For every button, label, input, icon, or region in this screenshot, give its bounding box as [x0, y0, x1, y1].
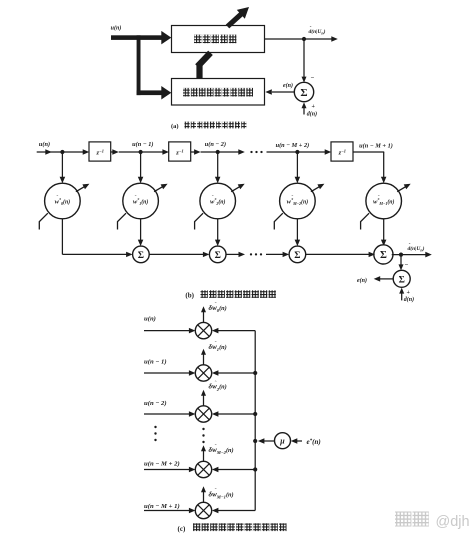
node: tap u(n-1) — [139, 150, 143, 154]
wire: output arrow up row 2 — [203, 395, 205, 406]
node: output tap dot — [302, 37, 306, 41]
wire: thick branch down to weight-control box — [137, 35, 141, 95]
svg-text:u(n − M + 1): u(n − M + 1) — [359, 143, 393, 150]
wire: summer1 to summer2 — [149, 253, 203, 255]
wire: summer4 output d-hat — [392, 254, 426, 256]
cross multiplier circle row 2 — [195, 406, 211, 422]
arrow: adjustability arrow on multiplier 3 — [311, 186, 320, 192]
svg-text:(c): (c) — [178, 525, 186, 533]
arrow: adjustability arrow on multiplier 0 — [76, 186, 85, 192]
wire: down to error summer — [400, 255, 402, 265]
svg-text:d(n): d(n) — [404, 296, 414, 303]
wire: filter output line — [265, 38, 332, 40]
summer 4 circle — [374, 245, 393, 264]
multiplier circle w0 — [45, 183, 81, 219]
wire out of delay 1 — [111, 151, 114, 153]
pigtail tail on multiplier 3 — [274, 213, 283, 229]
label: weight-control-algorithm CJK text — [183, 88, 190, 97]
svg-text:ˆ: ˆ — [378, 195, 380, 201]
wire: input into multiplier row 3 — [144, 469, 190, 471]
delay block z^-1 #1 — [89, 142, 111, 161]
svg-text:−: − — [405, 262, 409, 269]
svg-text:ˆ: ˆ — [215, 380, 217, 386]
arrow: adjustability arrow on multiplier 2 — [231, 186, 240, 192]
wire: vertical bus from mu — [254, 331, 256, 511]
svg-text:d(n): d(n) — [307, 111, 317, 118]
wire: output arrow up row 1 — [203, 354, 205, 365]
svg-text:ˆ: ˆ — [215, 302, 217, 308]
svg-text:Σ: Σ — [294, 251, 300, 261]
svg-text:(b): (b) — [185, 291, 194, 299]
wire: mu output to bus — [264, 440, 275, 442]
ellipsis dots multiplier column — [202, 428, 204, 430]
svg-text:+: + — [407, 290, 411, 296]
svg-text:μ: μ — [279, 437, 285, 446]
wire: input into multiplier row 0 — [144, 330, 190, 332]
wire: bus feed into multiplier row 1 — [218, 372, 256, 374]
wire: input into multiplier row 1 — [144, 372, 190, 374]
svg-text:u(n): u(n) — [111, 25, 122, 32]
wire: bus feed into multiplier row 2 — [218, 413, 256, 415]
wire: into summer3 — [266, 253, 284, 255]
svg-text:e(n): e(n) — [357, 277, 367, 284]
svg-text:ˆ: ˆ — [215, 488, 217, 494]
wire: d(n) input from below — [303, 107, 305, 115]
pigtail tail on multiplier 1 — [118, 213, 127, 229]
ellipsis dots left column — [154, 426, 156, 428]
wire: input line to first tap — [37, 151, 63, 153]
ellipsis dots on tap line — [250, 151, 252, 153]
wire: e(n) output arrow to the left — [380, 278, 393, 280]
svg-text:Σ: Σ — [300, 87, 307, 99]
mu gain circle — [275, 433, 291, 449]
summer (a) circle — [294, 82, 313, 101]
arrow: adjustability arrow on multiplier 4 — [397, 186, 406, 192]
pigtail tail on multiplier 4 — [361, 213, 370, 229]
svg-text:Σ: Σ — [380, 250, 387, 261]
wire: error arrow from summer to control box — [272, 91, 294, 93]
wire: output arrow up row 4 — [203, 492, 205, 503]
wire: output arrow up row 0 — [203, 312, 205, 323]
wire to z-1 block 2 — [141, 151, 163, 153]
svg-text:ˆ: ˆ — [215, 444, 217, 450]
wire: thick input line u(n) to filter box — [111, 35, 163, 40]
node: output tap to error summer — [399, 253, 403, 257]
arrow: thick adjustable arrow out of filter box top — [228, 14, 242, 27]
wire: e*(n) into mu — [296, 440, 302, 442]
svg-text:u(n − 1): u(n − 1) — [132, 141, 153, 148]
wire: tap down to multiplier 3 — [296, 152, 298, 178]
wire: multiplier 3 output down into summer 3 — [296, 219, 298, 241]
svg-text:u(n − 2): u(n − 2) — [205, 141, 226, 148]
label: transversal-filter CJK text — [194, 35, 202, 44]
cross multiplier circle row 0 — [195, 322, 211, 338]
cross multiplier circle row 1 — [195, 365, 211, 381]
summer 1 circle — [133, 246, 150, 263]
multiplier circle wM−2 — [280, 183, 316, 219]
svg-text:+: + — [312, 104, 316, 110]
pigtail tail on multiplier 2 — [195, 213, 204, 229]
wire: d(n) input from bottom — [401, 293, 403, 301]
wire: multiplier 0 output down and right into summer 1 — [61, 219, 63, 255]
wire: multiplier 2 output down into summer 2 — [217, 219, 219, 241]
pigtail tail on multiplier 0 — [39, 213, 48, 229]
wire right of u(n-2) — [218, 151, 239, 153]
error summer circle (b) — [393, 270, 410, 287]
wire: bus feed into multiplier row 4 — [218, 510, 256, 512]
wire: bus feed into multiplier row 0 — [218, 330, 256, 332]
summer 3 circle — [289, 246, 306, 263]
delay block z^-1 #2 — [169, 142, 191, 161]
svg-text:Σ: Σ — [138, 251, 144, 261]
svg-text:u(n − 1): u(n − 1) — [144, 359, 167, 366]
multiplier circle w1 — [123, 183, 159, 219]
node: tap u(n) — [60, 150, 64, 154]
watermark zhihu CJK — [395, 512, 411, 527]
delay block z^-1 #3 — [331, 142, 353, 161]
cross multiplier circle row 4 — [195, 502, 211, 518]
svg-text:−: − — [311, 75, 315, 82]
svg-text:e*(n): e*(n) — [307, 438, 321, 446]
node: tap u(n-M+2) — [295, 150, 299, 154]
svg-text:ˆ: ˆ — [212, 195, 214, 201]
arrow: adjustability arrow on multiplier 1 — [154, 186, 163, 192]
wire: tap down to multiplier 1 — [140, 152, 142, 178]
node dots on bus — [253, 371, 257, 375]
svg-text:ˆ: ˆ — [57, 195, 59, 201]
wire out of delay 2 — [191, 151, 195, 153]
wire: summer3 to summer4 — [306, 253, 370, 255]
wire: bus feed into multiplier row 3 — [218, 469, 256, 471]
svg-text:e(n): e(n) — [283, 82, 293, 89]
wire: multiplier 4 output down into summer 4 — [383, 219, 385, 241]
svg-text:Σ: Σ — [215, 251, 221, 261]
svg-text:Σ: Σ — [399, 276, 405, 286]
cross multiplier circle row 3 — [195, 461, 211, 477]
multiplier circle wM−1 — [366, 183, 402, 219]
svg-text:@djh: @djh — [436, 514, 470, 530]
wire to z-1 block 3 — [297, 151, 325, 153]
svg-text:ˆ: ˆ — [292, 195, 294, 201]
wire: thick weight-update elbow from control box to filter box — [196, 64, 202, 81]
wire: summer2 out — [226, 253, 239, 255]
svg-text:(a): (a) — [171, 123, 179, 130]
wire: input into multiplier row 2 — [144, 413, 190, 415]
svg-text:u(n − M + 2): u(n − M + 2) — [276, 142, 310, 149]
wire: down from tap to summer — [303, 39, 305, 78]
svg-text:u(n): u(n) — [144, 316, 156, 323]
wire: tap down to multiplier 2 — [217, 152, 219, 178]
svg-text:u(n − M + 2): u(n − M + 2) — [144, 461, 180, 468]
block: transversal filter box — [172, 26, 265, 53]
svg-text:u(n − M + 1): u(n − M + 1) — [144, 503, 180, 510]
wire to tap u(n-M+2) — [267, 151, 298, 153]
wire: output arrow up row 3 — [203, 451, 205, 462]
ellipsis dots on summer chain — [250, 253, 252, 255]
wire: tap down to multiplier 0 — [61, 152, 63, 178]
summer 2 circle — [209, 246, 226, 263]
svg-text:ˆ: ˆ — [135, 195, 137, 201]
svg-text:u(n): u(n) — [39, 141, 50, 148]
svg-text:u(n − 2): u(n − 2) — [144, 400, 167, 407]
multiplier circle w2 — [200, 183, 236, 219]
wire to z-1 block 1 — [62, 151, 83, 153]
wire out of delay 3 to corner and down to last multiplier — [353, 151, 384, 153]
block: adaptive weight-control algorithm box — [172, 79, 265, 106]
svg-text:ˆ: ˆ — [215, 341, 217, 347]
wire: multiplier 1 output down into summer 1 — [140, 219, 142, 241]
node: tap u(n-2) — [216, 150, 220, 154]
wire: input into multiplier row 4 — [144, 510, 190, 512]
